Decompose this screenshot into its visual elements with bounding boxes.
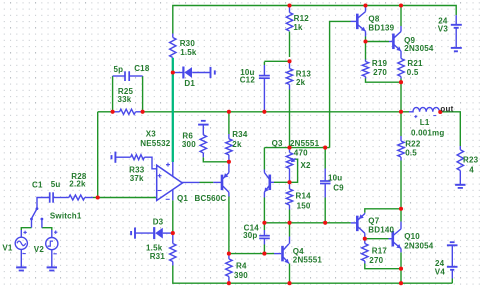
svg-text:C1: C1: [32, 181, 43, 190]
svg-text:0.5: 0.5: [405, 149, 417, 158]
svg-text:D3: D3: [153, 217, 164, 226]
svg-text:V2: V2: [34, 245, 45, 254]
svg-text:R31: R31: [150, 252, 166, 261]
svg-text:10u: 10u: [328, 174, 342, 183]
svg-text:5p: 5p: [114, 65, 124, 74]
svg-text:C12: C12: [240, 75, 256, 84]
svg-text:30p: 30p: [243, 231, 257, 240]
svg-text:R30: R30: [180, 39, 196, 48]
svg-text:BC560C: BC560C: [195, 194, 227, 203]
svg-text:R21: R21: [407, 59, 423, 68]
svg-text:R13: R13: [296, 69, 312, 78]
svg-text:X2: X2: [301, 161, 312, 170]
svg-text:Q8: Q8: [368, 15, 379, 24]
svg-text:0.001mg: 0.001mg: [411, 129, 444, 138]
svg-text:C18: C18: [134, 64, 150, 73]
svg-text:R22: R22: [405, 140, 421, 149]
svg-text:2N5551: 2N5551: [290, 139, 320, 148]
svg-text:270: 270: [369, 256, 383, 265]
svg-text:2N5551: 2N5551: [293, 255, 323, 264]
svg-text:2k: 2k: [232, 140, 242, 149]
svg-text:NE5532: NE5532: [140, 139, 170, 148]
svg-text:C9: C9: [333, 183, 344, 192]
svg-text:4: 4: [469, 166, 474, 175]
svg-text:1k: 1k: [293, 23, 303, 32]
svg-text:V3: V3: [438, 25, 449, 34]
svg-text:X3: X3: [146, 130, 157, 139]
svg-text:R23: R23: [463, 156, 479, 165]
svg-text:300: 300: [182, 140, 196, 149]
svg-text:R17: R17: [372, 246, 388, 255]
svg-text:R34: R34: [232, 130, 248, 139]
svg-text:5u: 5u: [51, 180, 61, 189]
svg-text:V1: V1: [2, 244, 13, 253]
svg-text:270: 270: [373, 68, 387, 77]
svg-text:2.2k: 2.2k: [69, 180, 86, 189]
svg-text:V4: V4: [435, 268, 446, 277]
svg-text:Q1: Q1: [177, 194, 188, 203]
svg-text:L1: L1: [420, 118, 430, 127]
svg-text:150: 150: [297, 202, 311, 211]
svg-text:24: 24: [435, 259, 445, 268]
svg-text:0.5: 0.5: [407, 68, 419, 77]
svg-text:2N3054: 2N3054: [404, 241, 434, 250]
svg-text:Switch1: Switch1: [50, 212, 82, 221]
svg-text:2k: 2k: [296, 78, 306, 87]
svg-text:R12: R12: [294, 14, 310, 23]
svg-text:R4: R4: [236, 262, 247, 271]
svg-text:D1: D1: [184, 79, 195, 88]
svg-text:33k: 33k: [118, 95, 132, 104]
svg-text:Q3: Q3: [272, 139, 283, 148]
svg-text:R14: R14: [296, 192, 312, 201]
svg-text:1.5k: 1.5k: [180, 48, 197, 57]
svg-text:R19: R19: [372, 59, 388, 68]
svg-text:2N3054: 2N3054: [404, 44, 434, 53]
svg-text:470: 470: [294, 148, 308, 157]
svg-text:BD140: BD140: [368, 226, 394, 235]
svg-text:37k: 37k: [130, 174, 144, 183]
svg-text:out: out: [440, 104, 453, 113]
svg-text:Q7: Q7: [368, 217, 379, 226]
svg-text:390: 390: [234, 271, 248, 280]
svg-text:Q10: Q10: [404, 232, 420, 241]
svg-text:BD139: BD139: [368, 24, 394, 33]
